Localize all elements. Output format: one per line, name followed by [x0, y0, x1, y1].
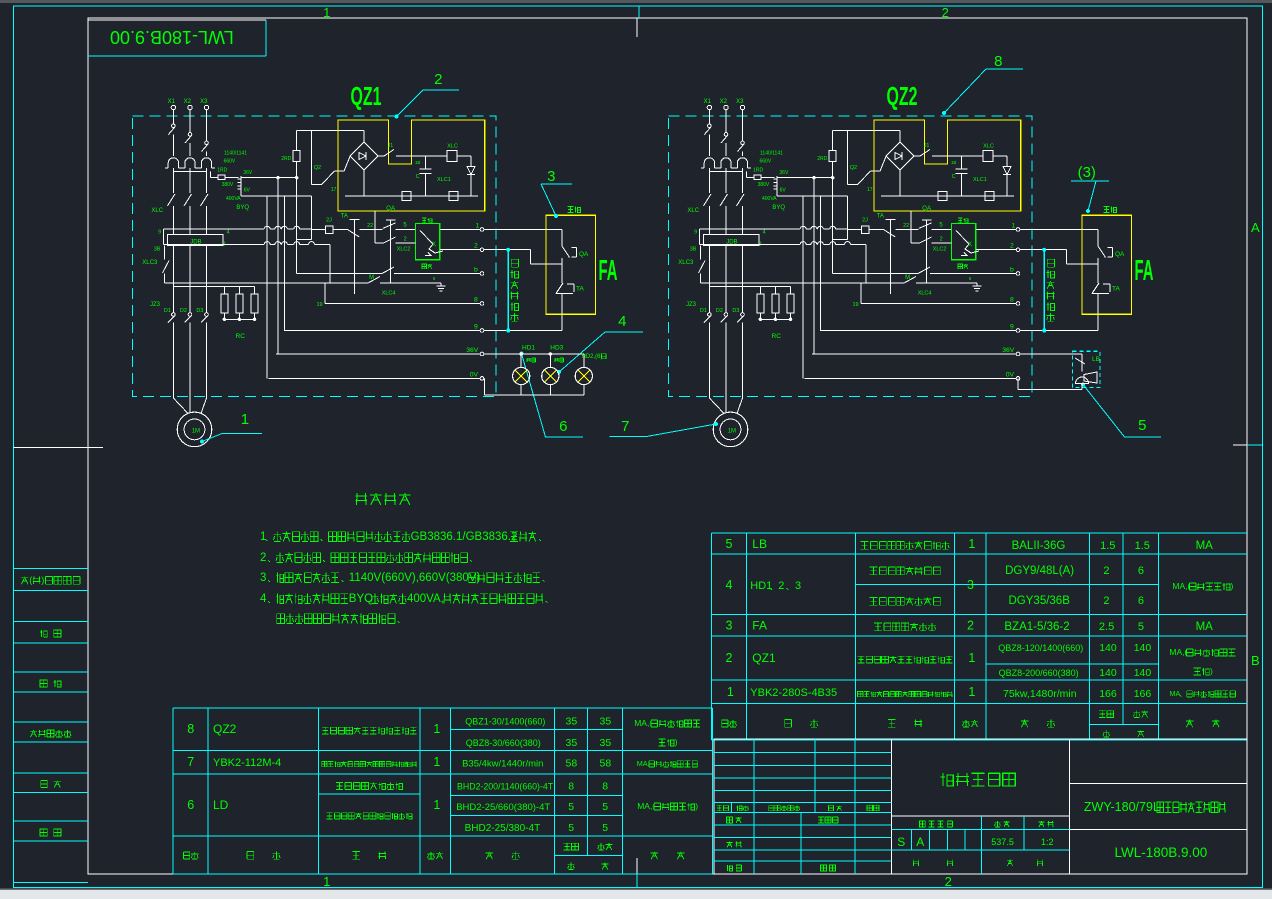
svg-text:XLC: XLC: [983, 144, 994, 150]
svg-text:1.5: 1.5: [1135, 540, 1150, 552]
svg-text:DGY35/36B: DGY35/36B: [1009, 595, 1071, 607]
svg-text:2J: 2J: [326, 218, 332, 224]
svg-text:MA,(: MA,(: [1169, 647, 1187, 657]
svg-text:4: 4: [227, 230, 230, 236]
svg-text:BZA1-5/36-2: BZA1-5/36-2: [1004, 621, 1069, 633]
svg-text:2: 2: [1010, 243, 1014, 250]
svg-text:6: 6: [1138, 565, 1144, 577]
svg-text:QA: QA: [922, 206, 931, 212]
svg-text:58: 58: [600, 758, 612, 770]
svg-text:2RD: 2RD: [281, 156, 291, 162]
svg-text:ZWY-180/79L: ZWY-180/79L: [1084, 800, 1160, 814]
svg-text:X2: X2: [720, 99, 728, 105]
svg-text:): ): [41, 575, 44, 585]
svg-text:1M: 1M: [728, 429, 736, 435]
svg-text:LD: LD: [213, 798, 229, 812]
svg-text:5: 5: [602, 822, 608, 834]
svg-text:4: 4: [618, 313, 626, 330]
svg-text:XLC1: XLC1: [973, 177, 987, 183]
svg-text:): ): [675, 737, 678, 747]
svg-text:YBK2-112M-4: YBK2-112M-4: [213, 757, 281, 769]
svg-text:6: 6: [559, 418, 567, 435]
svg-text:1M: 1M: [192, 429, 200, 435]
svg-text:6V: 6V: [244, 188, 251, 194]
svg-text:4: 4: [763, 230, 766, 236]
svg-text:BHD2-200/1140(660)-4T: BHD2-200/1140(660)-4T: [457, 782, 554, 792]
svg-text:36V: 36V: [779, 170, 789, 176]
svg-text:2: 2: [967, 619, 974, 633]
svg-text:5: 5: [568, 801, 574, 813]
svg-text:): ): [1210, 666, 1213, 676]
svg-text:1140/1141: 1140/1141: [760, 151, 783, 157]
svg-text:2: 2: [940, 237, 943, 243]
svg-text:5: 5: [403, 223, 407, 229]
svg-text:K: K: [432, 242, 436, 248]
svg-text:4: 4: [260, 593, 267, 605]
svg-text:4: 4: [726, 578, 733, 592]
svg-text:1: 1: [241, 411, 249, 428]
svg-text:D3: D3: [196, 308, 203, 314]
svg-text:): ): [1231, 581, 1234, 591]
svg-text:400VA,: 400VA,: [407, 593, 444, 605]
svg-text:3: 3: [795, 580, 801, 592]
svg-text:BYQ: BYQ: [236, 205, 249, 211]
svg-text:2: 2: [404, 237, 407, 243]
svg-text:6: 6: [433, 276, 436, 281]
svg-text:17: 17: [867, 187, 873, 193]
svg-text:36V: 36V: [243, 170, 253, 176]
svg-text:YBK2-280S-4B35: YBK2-280S-4B35: [750, 687, 837, 699]
svg-text:660V: 660V: [760, 159, 772, 165]
svg-text:1B: 1B: [415, 160, 421, 165]
svg-text:XLC3: XLC3: [142, 260, 158, 266]
svg-text:(: (: [29, 575, 32, 585]
svg-text:MA: MA: [1170, 689, 1181, 698]
svg-text:2J: 2J: [862, 218, 868, 224]
svg-text:1RD: 1RD: [217, 168, 227, 174]
svg-text:1: 1: [968, 651, 975, 665]
svg-text:5: 5: [726, 537, 733, 551]
svg-text:K: K: [968, 242, 972, 248]
svg-text:2: 2: [942, 5, 949, 20]
svg-text:1: 1: [476, 223, 480, 230]
svg-text:Q2: Q2: [314, 165, 321, 171]
svg-text:J1: J1: [924, 143, 930, 149]
svg-text:35: 35: [600, 737, 612, 749]
svg-text:5: 5: [568, 822, 574, 834]
svg-text:X3: X3: [200, 99, 208, 105]
svg-text:QBZ8-120/1400(660): QBZ8-120/1400(660): [998, 643, 1083, 653]
svg-text:2: 2: [474, 243, 478, 250]
svg-text:BYQ: BYQ: [772, 205, 785, 211]
svg-text:QZ1: QZ1: [752, 651, 776, 665]
svg-text:QZ1: QZ1: [351, 81, 382, 111]
svg-text:MA,(: MA,(: [634, 718, 652, 728]
svg-text:2RD: 2RD: [817, 156, 827, 162]
svg-text:35: 35: [566, 716, 578, 728]
svg-text:RC: RC: [236, 333, 246, 340]
svg-text:58: 58: [566, 758, 578, 770]
svg-text:1B: 1B: [951, 160, 957, 165]
svg-text:XLC: XLC: [447, 144, 458, 150]
svg-text:D1: D1: [164, 308, 171, 314]
svg-text:22: 22: [367, 223, 373, 229]
svg-text:17: 17: [331, 187, 337, 193]
svg-text:2: 2: [1103, 565, 1109, 577]
svg-text:b: b: [1010, 267, 1014, 274]
svg-text:36V: 36V: [466, 347, 479, 354]
svg-text:2: 2: [945, 874, 952, 889]
svg-text:BYQ: BYQ: [349, 593, 373, 605]
svg-text:1: 1: [1012, 223, 1016, 230]
svg-text:2: 2: [726, 651, 733, 665]
svg-text:XLC1: XLC1: [437, 177, 451, 183]
svg-text:1: 1: [727, 685, 734, 699]
svg-text:C: C: [416, 174, 420, 180]
svg-text:0V: 0V: [1006, 371, 1015, 378]
svg-text:9: 9: [1010, 324, 1014, 331]
svg-text:QA: QA: [579, 251, 589, 258]
svg-text:RC: RC: [772, 333, 782, 340]
svg-text:6: 6: [969, 276, 972, 281]
svg-text:5: 5: [602, 801, 608, 813]
svg-text:380V: 380V: [222, 182, 234, 188]
svg-text:TA: TA: [877, 214, 884, 220]
svg-text:166: 166: [1099, 688, 1117, 700]
svg-text:2: 2: [1103, 595, 1109, 607]
svg-text:TA: TA: [1112, 286, 1120, 293]
svg-text:1: 1: [323, 5, 330, 20]
svg-text:X1: X1: [168, 99, 176, 105]
svg-text:BHD2-25/660(380)-4T: BHD2-25/660(380)-4T: [456, 802, 550, 813]
svg-text:75kw,1480r/min: 75kw,1480r/min: [1003, 688, 1077, 700]
svg-text:): ): [695, 801, 698, 811]
svg-text:1: 1: [433, 798, 440, 812]
svg-text:19: 19: [317, 302, 323, 308]
svg-text:9: 9: [158, 230, 161, 236]
svg-text:XLC4: XLC4: [382, 291, 396, 297]
svg-text:6: 6: [1138, 595, 1144, 607]
svg-text:S: S: [897, 835, 905, 849]
svg-text:XLC: XLC: [687, 208, 699, 214]
svg-text:1: 1: [968, 537, 975, 551]
svg-text:3: 3: [547, 168, 555, 185]
svg-text:2: 2: [778, 580, 784, 592]
svg-text:2.5: 2.5: [1099, 621, 1114, 633]
svg-text:5: 5: [1138, 621, 1144, 633]
svg-text:BALII-36G: BALII-36G: [1012, 540, 1066, 552]
svg-text:5: 5: [1138, 417, 1146, 434]
svg-text:2: 2: [260, 552, 266, 564]
svg-text:XLC4: XLC4: [918, 291, 932, 297]
svg-text:LB: LB: [752, 537, 767, 551]
svg-text:22: 22: [903, 223, 909, 229]
svg-text:7: 7: [187, 755, 194, 769]
svg-text:MA: MA: [1196, 621, 1214, 633]
svg-text:35: 35: [566, 737, 578, 749]
svg-text:3: 3: [260, 572, 266, 584]
svg-text:1RD: 1RD: [753, 168, 763, 174]
svg-text:8: 8: [474, 297, 478, 304]
svg-text:Q2: Q2: [850, 165, 857, 171]
svg-text:140: 140: [1099, 667, 1117, 679]
svg-text:HD3: HD3: [550, 345, 563, 352]
svg-text:LWL-180B.9.00: LWL-180B.9.00: [1115, 845, 1208, 860]
svg-text:537.5: 537.5: [991, 837, 1014, 847]
svg-text:HD1: HD1: [750, 580, 772, 592]
svg-text:D2: D2: [716, 308, 723, 314]
svg-text:D1: D1: [700, 308, 707, 314]
svg-text:9: 9: [474, 324, 478, 331]
svg-text:TA: TA: [576, 286, 584, 293]
svg-text:LWL-180B.9.00: LWL-180B.9.00: [110, 27, 234, 47]
svg-text:3B: 3B: [154, 247, 161, 253]
svg-text:1: 1: [433, 755, 440, 769]
svg-text:36V: 36V: [1002, 347, 1015, 354]
svg-text:QA: QA: [1115, 251, 1125, 258]
svg-text:FA: FA: [599, 255, 618, 287]
svg-text:X1: X1: [704, 99, 712, 105]
svg-text:QBZ8-30/660(380): QBZ8-30/660(380): [466, 738, 541, 748]
svg-text:5: 5: [939, 223, 943, 229]
svg-text:BHD2-25/380-4T: BHD2-25/380-4T: [465, 823, 541, 834]
svg-text:166: 166: [1134, 688, 1152, 700]
svg-text:JZ3: JZ3: [150, 302, 161, 308]
svg-text:MA: MA: [1196, 540, 1214, 552]
svg-text:1: 1: [968, 685, 975, 699]
svg-text:A: A: [1251, 220, 1260, 235]
svg-text:MA,(: MA,(: [637, 801, 655, 811]
svg-text:HD2,(6): HD2,(6): [582, 354, 603, 360]
svg-text:0V: 0V: [470, 371, 479, 378]
svg-text:B35/4kw/1440r/min: B35/4kw/1440r/min: [462, 759, 543, 770]
svg-text:GB3836.1/GB3836.2: GB3836.1/GB3836.2: [411, 531, 518, 543]
svg-text:M: M: [369, 275, 374, 281]
svg-text:M: M: [905, 275, 910, 281]
svg-text:400VA: 400VA: [226, 196, 241, 202]
svg-text:B: B: [1251, 653, 1260, 668]
svg-text:9: 9: [694, 230, 697, 236]
svg-text:FA: FA: [752, 619, 767, 633]
svg-text:140: 140: [1134, 642, 1152, 654]
svg-text:XLC2: XLC2: [397, 247, 411, 253]
svg-text:3: 3: [967, 578, 974, 592]
svg-text:XLC2: XLC2: [933, 247, 947, 253]
svg-text:XLC3: XLC3: [678, 260, 694, 266]
svg-text:380V: 380V: [758, 182, 770, 188]
svg-text:35: 35: [600, 716, 612, 728]
svg-text:QZ2: QZ2: [213, 722, 237, 736]
svg-text:3: 3: [726, 619, 733, 633]
svg-text:1: 1: [260, 531, 266, 543]
svg-text:A: A: [916, 835, 924, 849]
svg-text:19: 19: [853, 302, 859, 308]
svg-text:b: b: [474, 267, 478, 274]
svg-text:QZ2: QZ2: [887, 81, 918, 111]
svg-text:X2: X2: [184, 99, 192, 105]
svg-text:3B: 3B: [690, 247, 697, 253]
svg-text:J1: J1: [388, 143, 394, 149]
svg-text:8: 8: [994, 53, 1002, 70]
svg-text:X3: X3: [736, 99, 744, 105]
svg-text:1: 1: [433, 722, 440, 736]
svg-text:C: C: [952, 174, 956, 180]
svg-text:QA: QA: [386, 206, 395, 212]
svg-text:XLC: XLC: [151, 208, 163, 214]
svg-text:D3: D3: [732, 308, 739, 314]
svg-text:TA: TA: [341, 214, 348, 220]
svg-text:1:2: 1:2: [1041, 837, 1054, 847]
svg-text:1: 1: [323, 874, 330, 889]
svg-text:660V: 660V: [224, 159, 236, 165]
svg-text:(3): (3): [1078, 164, 1096, 181]
svg-text:D2: D2: [180, 308, 187, 314]
svg-text:8: 8: [1010, 297, 1014, 304]
svg-text:LB: LB: [1092, 356, 1100, 363]
svg-text:JZ3: JZ3: [686, 302, 697, 308]
svg-text:1140V(660V),660V(380V): 1140V(660V),660V(380V): [349, 572, 481, 584]
svg-text:1140/1141: 1140/1141: [224, 151, 247, 157]
svg-text:1.5: 1.5: [1100, 540, 1115, 552]
svg-text:MA,: MA,: [637, 759, 650, 768]
svg-text:8: 8: [602, 781, 608, 793]
svg-text:8: 8: [187, 722, 194, 736]
svg-text:140: 140: [1099, 642, 1117, 654]
svg-text:DGY9/48L(A): DGY9/48L(A): [1005, 565, 1074, 577]
svg-text:QBZ1-30/1400(660): QBZ1-30/1400(660): [465, 717, 545, 727]
svg-text:8: 8: [568, 781, 574, 793]
svg-text:140: 140: [1134, 667, 1152, 679]
svg-text:QBZ8-200/660(380): QBZ8-200/660(380): [999, 668, 1079, 678]
svg-text:6: 6: [187, 798, 194, 812]
svg-text:6V: 6V: [780, 188, 787, 194]
svg-text:FA: FA: [1135, 255, 1154, 287]
svg-text:HD1: HD1: [522, 345, 535, 352]
svg-text:7: 7: [621, 418, 629, 435]
svg-text:400VA: 400VA: [762, 196, 777, 202]
svg-text:MA,(: MA,(: [1172, 581, 1190, 591]
svg-text:2: 2: [434, 71, 442, 88]
